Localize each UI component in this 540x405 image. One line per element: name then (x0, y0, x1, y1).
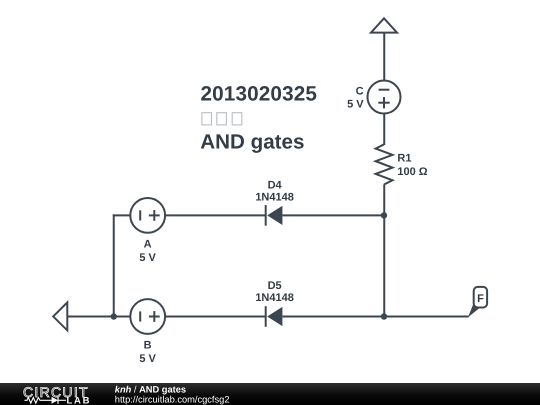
annotation: three missing-glyph boxes (202, 113, 242, 125)
svg-text:A: A (144, 238, 152, 250)
CircuitLab logo (23, 384, 91, 405)
diode D4 (266, 205, 283, 226)
wire: source B to diode D5 (165, 316, 266, 318)
wire: top-left bend to source A (113, 214, 131, 216)
svg-text:B: B (144, 339, 152, 351)
svg-text:D5: D5 (268, 280, 282, 292)
svg-text:LAB: LAB (67, 395, 92, 405)
wire: source C to resistor R1 (383, 114, 385, 146)
svg-text:1N4148: 1N4148 (255, 191, 294, 203)
junction: bottom node (R1 column meets B rail) (381, 313, 387, 319)
svg-text:http://circuitlab.com/cgcfsg2: http://circuitlab.com/cgcfsg2 (115, 394, 230, 404)
svg-text:5 V: 5 V (347, 98, 364, 110)
wire: diode D5 to bottom node (282, 316, 384, 318)
svg-text:R1: R1 (397, 152, 411, 164)
footer bar (0, 383, 540, 405)
diode D5 (266, 306, 283, 327)
svg-text:5 V: 5 V (139, 252, 156, 264)
wire: VCC flag to source C (383, 33, 385, 82)
svg-text:100 Ω: 100 Ω (397, 166, 427, 178)
svg-text:F: F (477, 293, 484, 305)
wire: diode D4 to right node (282, 214, 384, 216)
svg-text:2013020325: 2013020325 (201, 83, 318, 106)
svg-text:1N4148: 1N4148 (255, 292, 294, 304)
voltage source C (368, 81, 401, 114)
wire: R1 down through node to bottom node (383, 185, 385, 317)
voltage source A (130, 198, 165, 233)
svg-text:AND gates: AND gates (200, 131, 304, 154)
node flag F (468, 287, 487, 318)
wire: left arrow to source B (67, 316, 131, 318)
power flag VCC (up arrow) (371, 18, 397, 32)
junction: top node (D4 / R1) (381, 212, 387, 218)
svg-text:D4: D4 (268, 179, 283, 191)
voltage source B (130, 299, 165, 334)
power flag (left arrow) (53, 302, 67, 330)
wire: left vertical from bend down to bottom junction (113, 214, 115, 316)
svg-text:knh / AND gates: knh / AND gates (115, 385, 186, 395)
svg-text:5 V: 5 V (139, 353, 156, 365)
resistor R1 (376, 144, 393, 184)
svg-text:C: C (356, 85, 364, 97)
junction: bottom-left node (A branch joins B rail) (111, 313, 117, 319)
wire: source A to diode D4 (165, 214, 266, 216)
wire: bottom node to flag F (384, 316, 469, 318)
